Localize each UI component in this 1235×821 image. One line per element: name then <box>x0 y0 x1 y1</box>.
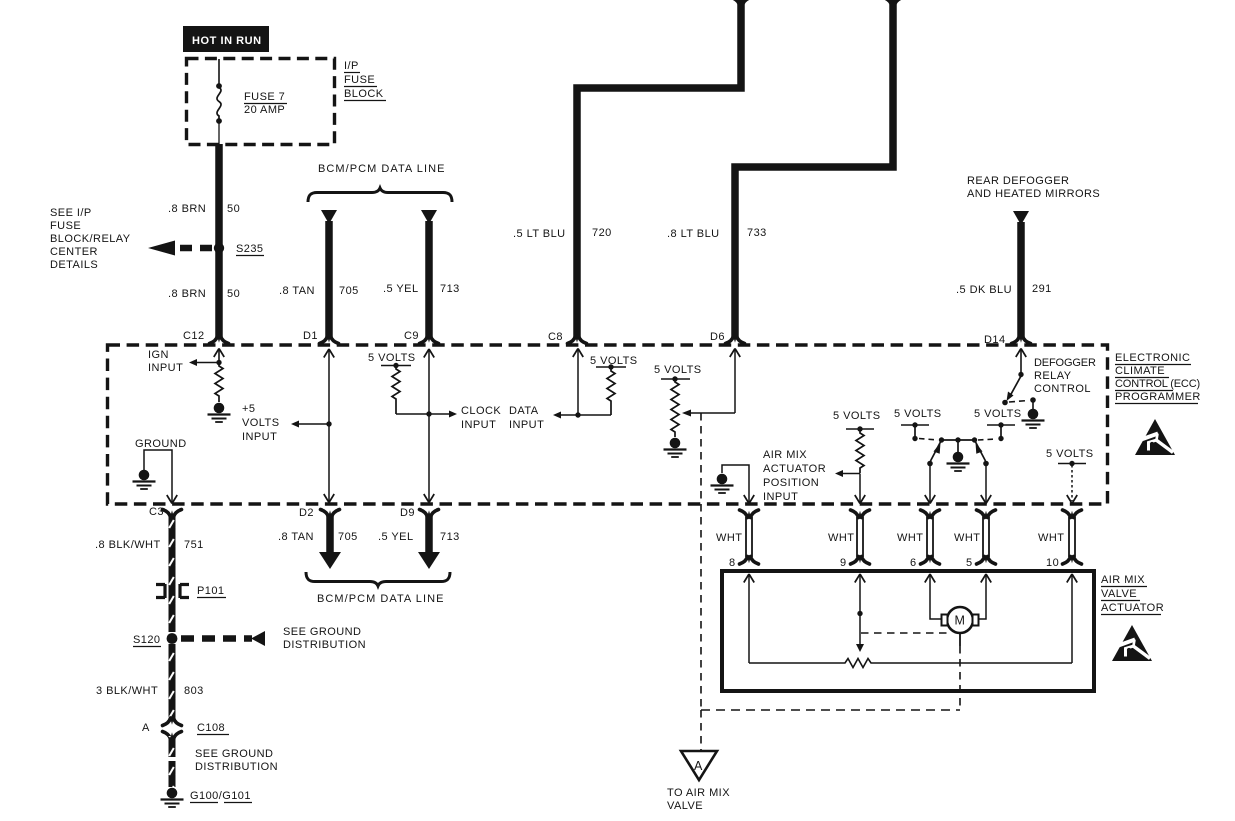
wire continues <box>169 600 176 632</box>
svg-text:S235: S235 <box>236 243 264 255</box>
connector stub top wire 733 <box>884 0 903 5</box>
svg-text:BLOCK/RELAY: BLOCK/RELAY <box>50 233 131 245</box>
resistor track <box>749 659 1072 668</box>
resistor pot <box>671 379 679 437</box>
svg-text:ACTUATOR: ACTUATOR <box>1101 602 1164 614</box>
svg-text:C8: C8 <box>548 331 563 343</box>
actuator box <box>722 571 1094 691</box>
svg-text:SEE GROUND: SEE GROUND <box>283 626 361 638</box>
svg-text:CENTER: CENTER <box>50 246 98 258</box>
wire dashed to air mix valve ref <box>700 413 702 710</box>
svg-text:FUSE: FUSE <box>344 74 375 86</box>
pin arrow 9 inside <box>855 574 865 583</box>
svg-text:CONTROL (ECC): CONTROL (ECC) <box>1115 378 1200 390</box>
svg-text:5 VOLTS: 5 VOLTS <box>1046 448 1094 460</box>
node wiper <box>857 611 862 616</box>
wire C108 to ground <box>169 736 176 757</box>
svg-text:705: 705 <box>339 285 359 297</box>
connector WHT 6 <box>921 510 940 518</box>
switch B contacts <box>987 424 1015 426</box>
brace bottom <box>306 572 450 586</box>
wire .5 LT BLU 720 to C8 <box>577 0 741 338</box>
resistor clock pull-up <box>392 366 400 415</box>
switch arm pin5 <box>975 440 986 461</box>
ESD symbol ECC <box>1135 419 1175 455</box>
node ign <box>216 360 221 365</box>
svg-text:AIR MIX: AIR MIX <box>1101 574 1145 586</box>
svg-text:733: 733 <box>747 227 767 239</box>
svg-text:.8 TAN: .8 TAN <box>279 285 315 297</box>
wire C9 to D9 <box>424 349 434 358</box>
svg-text:A: A <box>142 722 150 734</box>
connector P101 <box>156 584 165 598</box>
wire dashed wiper to motor <box>861 632 950 634</box>
svg-text:.5 YEL: .5 YEL <box>378 531 414 543</box>
svg-text:5 VOLTS: 5 VOLTS <box>368 352 416 364</box>
svg-text:WHT: WHT <box>1038 532 1064 544</box>
wiper arm <box>859 615 861 645</box>
node clock <box>426 411 431 416</box>
svg-text:5 VOLTS: 5 VOLTS <box>894 408 942 420</box>
svg-text:BLOCK: BLOCK <box>344 88 384 100</box>
wire dashed bottom run <box>701 709 960 711</box>
svg-text:.5 LT BLU: .5 LT BLU <box>513 228 566 240</box>
svg-text:INPUT: INPUT <box>509 419 544 431</box>
splice S120 <box>167 633 178 644</box>
svg-text:AIR MIX: AIR MIX <box>763 449 807 461</box>
svg-text:.8 BRN: .8 BRN <box>168 203 206 215</box>
node 5v pin9 <box>846 428 874 430</box>
svg-text:3 BLK/WHT: 3 BLK/WHT <box>96 685 158 697</box>
svg-text:.8 LT BLU: .8 LT BLU <box>667 228 720 240</box>
wire dashed chain to switch B <box>978 439 997 440</box>
wire pin8 to track <box>748 574 750 663</box>
svg-text:5: 5 <box>966 557 973 569</box>
svg-text:INPUT: INPUT <box>148 362 183 374</box>
svg-text:IGN: IGN <box>148 349 169 361</box>
svg-text:+5: +5 <box>242 403 255 415</box>
svg-text:VALVE: VALVE <box>1101 588 1137 600</box>
svg-text:50: 50 <box>227 203 240 215</box>
pin arrow D14 <box>1016 349 1026 358</box>
contact node <box>1002 400 1008 406</box>
wire dashed to A <box>700 710 702 750</box>
node 5v clock <box>381 365 411 367</box>
arrow ground distribution <box>251 631 265 646</box>
arrow to see I/P note <box>148 241 175 256</box>
node fuse top <box>216 83 222 89</box>
wire position input arrow <box>843 473 860 475</box>
svg-text:ACTUATOR: ACTUATOR <box>763 463 826 475</box>
svg-text:SEE I/P: SEE I/P <box>50 207 92 219</box>
ground chain center <box>957 441 959 452</box>
svg-text:INPUT: INPUT <box>763 491 798 503</box>
ground ign <box>208 403 231 422</box>
svg-text:TO AIR MIX: TO AIR MIX <box>667 787 730 799</box>
wire 3 BLK/WHT 803 <box>169 644 176 718</box>
svg-text:WHT: WHT <box>828 532 854 544</box>
svg-text:PROGRAMMER: PROGRAMMER <box>1115 391 1201 403</box>
arrow from defogger circuit <box>1013 211 1029 225</box>
svg-text:291: 291 <box>1032 283 1052 295</box>
svg-text:G100/G101: G100/G101 <box>190 790 251 802</box>
wire fuse output down to C12 <box>215 144 223 338</box>
svg-text:C3: C3 <box>149 506 164 518</box>
wire dashed relay contact <box>1009 401 1028 403</box>
pin arrow C12 <box>214 349 224 358</box>
off-page reference A <box>681 751 717 780</box>
resistor pin9 <box>856 429 864 473</box>
svg-text:SEE GROUND: SEE GROUND <box>195 748 273 760</box>
svg-text:50: 50 <box>227 288 240 300</box>
svg-text:CLIMATE: CLIMATE <box>1115 365 1165 377</box>
svg-text:P101: P101 <box>197 585 225 597</box>
svg-text:751: 751 <box>184 539 204 551</box>
wire resistor to clock node <box>396 413 429 415</box>
ground relay <box>1022 409 1045 428</box>
svg-text:WHT: WHT <box>897 532 923 544</box>
svg-text:D1: D1 <box>303 330 318 342</box>
wire dashed to fuse block details <box>180 245 213 252</box>
connector WHT 9 <box>851 510 870 518</box>
svg-text:705: 705 <box>338 531 358 543</box>
wire ground L <box>144 450 172 502</box>
svg-text:.8 TAN: .8 TAN <box>278 531 314 543</box>
pin arrow C3 <box>167 495 177 504</box>
svg-text:6: 6 <box>910 557 917 569</box>
switch A contacts <box>901 424 929 426</box>
ground feed to pin 8 <box>722 465 749 502</box>
node relay ground <box>1030 397 1036 403</box>
fuse 7 element <box>217 88 221 120</box>
svg-text:DATA: DATA <box>509 405 539 417</box>
svg-text:ELECTRONIC: ELECTRONIC <box>1115 352 1190 364</box>
svg-text:5 VOLTS: 5 VOLTS <box>590 355 638 367</box>
chain bar <box>940 439 976 441</box>
pin arrow 8 inside <box>744 574 754 583</box>
connector WHT 10 <box>1063 510 1082 518</box>
wire pin10 down <box>1071 465 1073 501</box>
svg-text:8: 8 <box>729 557 736 569</box>
connector stub top wire 720 <box>732 0 751 5</box>
wire motor common <box>959 633 961 646</box>
svg-text:DETAILS: DETAILS <box>50 259 98 271</box>
resistor data pull-up <box>607 367 615 415</box>
svg-text:AND HEATED MIRRORS: AND HEATED MIRRORS <box>967 188 1100 200</box>
pin arrow 5 inside <box>981 574 991 583</box>
ground symbol ecc <box>133 470 156 489</box>
node data <box>575 412 580 417</box>
svg-text:C108: C108 <box>197 722 225 734</box>
svg-text:803: 803 <box>184 685 204 697</box>
wire fuse to box bottom <box>218 123 220 144</box>
svg-text:20 AMP: 20 AMP <box>244 104 285 116</box>
ESD symbol actuator <box>1112 625 1152 661</box>
svg-text:BCM/PCM DATA LINE: BCM/PCM DATA LINE <box>318 163 445 175</box>
svg-text:.8 BRN: .8 BRN <box>168 288 206 300</box>
label HOT IN RUN <box>183 26 269 52</box>
node +5v <box>326 421 331 426</box>
wire .5 YEL 713 to C9 <box>425 221 433 338</box>
svg-text:VALVE: VALVE <box>667 800 703 812</box>
svg-text:INPUT: INPUT <box>461 419 496 431</box>
svg-text:713: 713 <box>440 531 460 543</box>
wire .5 DK BLU 291 to D14 <box>1017 222 1025 338</box>
switch arm pin6 <box>931 440 942 461</box>
connector WHT 8 <box>740 510 759 518</box>
svg-text:M: M <box>955 614 965 628</box>
I/P fuse block dashed box <box>187 59 335 145</box>
svg-text:FUSE: FUSE <box>50 220 81 232</box>
wire dashed switch A to chain <box>919 439 938 441</box>
brace top <box>308 188 452 202</box>
svg-text:D9: D9 <box>400 507 415 519</box>
svg-text:5 VOLTS: 5 VOLTS <box>974 408 1022 420</box>
svg-text:POSITION: POSITION <box>763 477 819 489</box>
svg-text:CONTROL: CONTROL <box>1034 383 1091 395</box>
wire .5 YEL 713 out <box>425 516 433 553</box>
svg-text:DISTRIBUTION: DISTRIBUTION <box>195 761 278 773</box>
svg-text:5 VOLTS: 5 VOLTS <box>833 410 881 422</box>
wire .8 BLK/WHT 751 <box>169 515 176 600</box>
wire .8 LT BLU 733 to D6 <box>735 0 893 338</box>
resistor ign pulldown <box>215 364 223 402</box>
wire to CLOCK INPUT arrow <box>429 413 449 415</box>
wire to +5 VOLTS INPUT arrow <box>299 423 329 425</box>
wire .8 TAN 705 to D1 <box>325 221 333 338</box>
svg-text:BCM/PCM DATA LINE: BCM/PCM DATA LINE <box>317 593 444 605</box>
svg-text:A: A <box>694 759 703 773</box>
node 5v data <box>596 366 626 368</box>
node 5v pot <box>661 378 690 380</box>
svg-text:I/P: I/P <box>344 60 359 72</box>
node relay <box>1018 372 1023 377</box>
pin arrow D6 <box>730 349 740 358</box>
wire to IGN INPUT arrow <box>197 362 219 364</box>
ground G100/G101 <box>161 788 184 807</box>
svg-text:9: 9 <box>840 557 847 569</box>
ground pot <box>664 438 687 457</box>
wire dashed to ground distribution <box>181 635 252 642</box>
svg-text:DEFOGGER: DEFOGGER <box>1034 357 1096 369</box>
svg-text:C12: C12 <box>183 330 205 342</box>
arrow to DATA INPUT <box>553 412 561 419</box>
connector WHT 5 <box>977 510 996 518</box>
svg-text:VOLTS: VOLTS <box>242 417 280 429</box>
svg-text:RELAY: RELAY <box>1034 370 1072 382</box>
svg-text:720: 720 <box>592 227 612 239</box>
node fuse bottom <box>216 118 222 124</box>
pin arrow 10 inside <box>1067 574 1077 583</box>
wire into fuse <box>218 59 220 84</box>
svg-text:.5 YEL: .5 YEL <box>383 283 419 295</box>
motor M <box>947 607 973 633</box>
svg-text:GROUND: GROUND <box>135 438 187 450</box>
svg-text:5 VOLTS: 5 VOLTS <box>654 364 702 376</box>
wire D6 to wiper <box>691 412 735 414</box>
arrow into wire 705 <box>321 210 337 224</box>
svg-text:FUSE 7: FUSE 7 <box>244 91 285 103</box>
svg-text:WHT: WHT <box>716 532 742 544</box>
svg-text:DISTRIBUTION: DISTRIBUTION <box>283 639 366 651</box>
svg-text:INPUT: INPUT <box>242 431 277 443</box>
wire D1 to D2 <box>324 349 334 358</box>
switch arm defogger relay <box>1010 376 1021 396</box>
wire data node <box>561 414 611 416</box>
svg-text:713: 713 <box>440 283 460 295</box>
svg-text:10: 10 <box>1046 557 1059 569</box>
svg-text:S120: S120 <box>133 634 161 646</box>
wire .8 TAN 705 out <box>326 516 334 553</box>
wire pin9 down <box>859 474 861 503</box>
svg-text:D2: D2 <box>299 507 314 519</box>
svg-text:.5 DK BLU: .5 DK BLU <box>956 284 1012 296</box>
svg-text:C9: C9 <box>404 330 419 342</box>
splice S235 <box>214 243 224 253</box>
arrow into wire 713 <box>421 210 437 224</box>
pin arrow C8 <box>573 349 583 358</box>
ECC programmer box <box>108 345 1108 504</box>
svg-text:REAR DEFOGGER: REAR DEFOGGER <box>967 175 1069 187</box>
svg-text:D6: D6 <box>710 331 725 343</box>
svg-text:HOT IN RUN: HOT IN RUN <box>192 35 262 47</box>
svg-text:WHT: WHT <box>954 532 980 544</box>
svg-text:.8 BLK/WHT: .8 BLK/WHT <box>95 539 161 551</box>
svg-text:CLOCK: CLOCK <box>461 405 501 417</box>
node 5v pin10 <box>1058 463 1086 465</box>
pin arrow 6 inside <box>925 574 935 583</box>
